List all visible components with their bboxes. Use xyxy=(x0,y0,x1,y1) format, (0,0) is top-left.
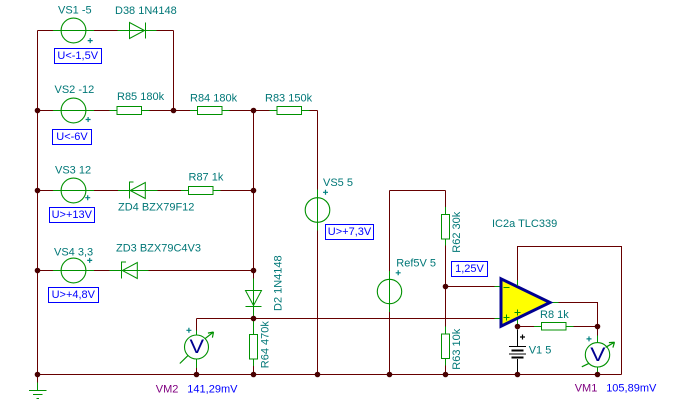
voltage source VS5 5 xyxy=(317,190,319,231)
svg-text:R62 30k: R62 30k xyxy=(451,211,463,252)
resistor R83 150k xyxy=(270,110,310,112)
wire: VM1 branch xyxy=(597,327,599,375)
VS4 plus xyxy=(87,258,92,263)
svg-text:V: V xyxy=(190,336,205,357)
VS2 plus xyxy=(86,117,91,122)
node: Ref5V bottom xyxy=(387,372,393,378)
node: VM2 bottom xyxy=(194,372,200,378)
svg-text:VS3 12: VS3 12 xyxy=(55,165,91,177)
voltmeter VM1 xyxy=(582,336,615,367)
node: ZD3 right xyxy=(251,268,257,274)
component labels (teal text) xyxy=(54,5,569,370)
battery V1 5 xyxy=(509,330,526,375)
svg-text:R64 470k: R64 470k xyxy=(259,321,271,369)
measurement value texts xyxy=(156,382,657,395)
VS1 plus xyxy=(88,38,93,43)
resistor R62 30k xyxy=(445,207,447,246)
label box U>+13V xyxy=(49,207,95,223)
wire: op-amp gnd pin loop xyxy=(518,247,622,375)
svg-text:105,89mV: 105,89mV xyxy=(606,382,657,394)
voltage source VS3 12 xyxy=(53,190,94,192)
node: battery top R8 left xyxy=(515,324,521,330)
node: ground corner xyxy=(35,372,41,378)
wire: bottom rail xyxy=(38,374,622,376)
svg-text:Ref5V 5: Ref5V 5 xyxy=(396,258,436,270)
svg-text:D2 1N4148: D2 1N4148 xyxy=(273,255,285,311)
wire: minus input wire xyxy=(446,286,495,288)
resistor R64 470k xyxy=(253,319,255,367)
wire: Ref5V vertical xyxy=(389,191,391,375)
wire: vertical x=253.5 (D2/R64 branch) xyxy=(253,111,255,375)
op-amp top gnd pin stub over fill xyxy=(517,280,519,286)
svg-text:V: V xyxy=(590,345,605,366)
node: left rail row3 xyxy=(35,188,41,194)
svg-text:R85 180k: R85 180k xyxy=(117,91,165,103)
node: R63 bottom xyxy=(443,372,449,378)
node: left rail row2 xyxy=(35,108,41,114)
label box U<-6V xyxy=(52,129,92,145)
node: R64 bottom xyxy=(251,372,257,378)
op-amp plus input label xyxy=(504,315,510,321)
op-amp plus input stub xyxy=(495,318,501,320)
label box U>+7,3V xyxy=(325,224,374,240)
wire: ground stub xyxy=(37,375,39,383)
VS5 plus xyxy=(323,190,328,195)
label box U<-1,5V xyxy=(54,48,102,64)
node: D38/R85/R84 xyxy=(171,108,177,114)
VS3 plus xyxy=(85,195,90,200)
plus polarity marks (teal) xyxy=(85,38,401,275)
voltage source Ref5V 5 xyxy=(389,271,391,312)
voltage source VS2 -12 xyxy=(53,110,94,112)
resistor R63 10k xyxy=(445,327,447,366)
voltmeter VM1 leads xyxy=(597,336,599,373)
voltmeter VM2 xyxy=(180,328,214,364)
diode D2 1N4148 xyxy=(253,279,255,319)
voltage source VS4 3,3 xyxy=(53,270,94,272)
svg-text:R87 1k: R87 1k xyxy=(189,171,224,183)
svg-text:VM2: VM2 xyxy=(156,384,179,396)
svg-text:ZD4 BZX79F12: ZD4 BZX79F12 xyxy=(118,202,194,214)
ground xyxy=(29,391,47,399)
ground stub green xyxy=(37,383,39,391)
voltage source VS1 -5 xyxy=(53,30,94,32)
op-amp output stub xyxy=(550,302,559,304)
label box 1,25V xyxy=(451,261,488,277)
op-amp power plus label xyxy=(515,310,521,316)
zener diode ZD3 BZX79C4V3 xyxy=(110,270,149,272)
wire: row 4 VS4/ZD3 xyxy=(38,270,254,272)
node: D2 cathode plus-input xyxy=(251,316,257,322)
wire: left rail xyxy=(37,31,39,375)
node: R84/R83 xyxy=(251,108,257,114)
resistor R87 1k xyxy=(181,190,221,192)
wire: top loop Ref5V to R62 xyxy=(390,190,446,192)
label box U>+4,8V xyxy=(48,287,99,303)
resistor R84 180k xyxy=(190,110,230,112)
node: minus input R62/R63 xyxy=(443,284,449,290)
wire: vertical D38 to row 2 xyxy=(173,31,175,111)
resistor R85 180k xyxy=(110,110,150,112)
zener diode ZD4 BZX79F12 xyxy=(118,190,158,192)
svg-text:D38 1N4148: D38 1N4148 xyxy=(115,5,177,17)
resistor R8 1k xyxy=(534,326,574,328)
op-amp power pin stub xyxy=(517,319,519,327)
op-amp minus input stub xyxy=(495,286,501,288)
svg-text:V1 5: V1 5 xyxy=(529,344,552,356)
wire: R8 row xyxy=(518,326,598,328)
svg-text:141,29mV: 141,29mV xyxy=(187,384,238,396)
wire: R62/R63 vertical xyxy=(445,191,447,375)
node: battery bottom xyxy=(515,372,521,378)
node: left rail row4 xyxy=(35,268,41,274)
svg-text:VM1: VM1 xyxy=(575,382,598,394)
voltmeter VM2 leads xyxy=(196,331,198,369)
diode D38 1N4148 xyxy=(118,30,157,32)
svg-text:R8 1k: R8 1k xyxy=(540,309,569,321)
svg-text:R84 180k: R84 180k xyxy=(190,92,238,104)
op-amp minus input label xyxy=(504,287,510,289)
node: VM1 bottom xyxy=(595,372,601,378)
svg-text:ZD3 BZX79C4V3: ZD3 BZX79C4V3 xyxy=(116,243,201,255)
wire: row 3 VS3/ZD4/R87 xyxy=(38,190,254,192)
node: output R8 right xyxy=(595,324,601,330)
svg-text:VS4 3,3: VS4 3,3 xyxy=(54,247,93,259)
wire: row 1 VS1/D38 xyxy=(38,30,174,32)
svg-text:VS5 5: VS5 5 xyxy=(323,177,353,189)
wire: vertical x=317.5 (VS5 branch) xyxy=(317,111,319,375)
svg-text:VS1 -5: VS1 -5 xyxy=(58,5,92,17)
node: VS5 bottom xyxy=(315,372,321,378)
svg-text:R63 10k: R63 10k xyxy=(451,328,463,369)
svg-text:VS2 -12: VS2 -12 xyxy=(55,84,95,96)
wire: row 2 VS2/R85/R84/R83 xyxy=(38,110,318,112)
node: R87 right xyxy=(251,188,257,194)
op-amp IC2a TLC339 triangle xyxy=(501,279,550,326)
wire: output wire to R8 node xyxy=(559,303,598,327)
svg-text:IC2a TLC339: IC2a TLC339 xyxy=(492,218,557,230)
svg-text:R83 150k: R83 150k xyxy=(265,92,313,104)
wire: VM2 branch xyxy=(196,319,198,375)
wire: plus-input row to op-amp xyxy=(197,318,495,320)
Ref5V plus xyxy=(396,270,401,275)
